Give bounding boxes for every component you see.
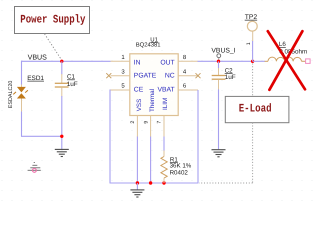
svg-text:OUT: OUT [160, 59, 174, 66]
inductor L6 [265, 57, 306, 61]
wire VBAT down [197, 90, 199, 183]
pin 7 ILIM stub [163, 116, 165, 137]
junction Thermal/rail [149, 181, 152, 184]
wire dashed link from Power Supply to VBUS node [45, 34, 63, 61]
wire TP2 down [252, 41, 254, 61]
svg-text:VBAT: VBAT [157, 87, 174, 94]
junction C2 tap [217, 60, 220, 63]
capacitor C1 [55, 61, 69, 96]
pin 2 VSS stub [136, 116, 138, 137]
pin 5 CE stub [111, 89, 130, 91]
wire CE down [109, 90, 111, 184]
wire node to L6 [253, 60, 265, 62]
wire OUT to TP2 node [198, 60, 253, 62]
svg-text:1uF: 1uF [225, 74, 236, 81]
ground (rail) [130, 183, 144, 197]
svg-text:L6: L6 [279, 41, 286, 48]
wire ESD1 to ground rail [21, 112, 23, 137]
resistor R1 [161, 151, 167, 184]
wire VBUS down to ESD1 [21, 61, 23, 85]
pin 8 OUT stub [178, 60, 198, 62]
port circle VBUS_I [217, 54, 221, 58]
junction C1/ESD1 ground node [60, 135, 63, 138]
svg-text:Thermal: Thermal [149, 89, 156, 112]
svg-text:9: 9 [143, 121, 149, 124]
svg-text:IN: IN [134, 59, 141, 66]
pin 6 VBAT stub [178, 89, 198, 91]
junction VSS/rail [136, 181, 139, 184]
junction R1/rail [162, 181, 165, 184]
no-connect X pin 3 [106, 73, 111, 78]
dashed wire E-Load bottom to rail [252, 123, 254, 183]
ESD diode ESD1 [13, 85, 28, 113]
pin 3 PGATE stub (no-connect) [111, 75, 130, 77]
DNP red X over L6 [268, 31, 305, 90]
svg-text:Power Supply: Power Supply [20, 13, 85, 26]
svg-text:BQ24381: BQ24381 [136, 41, 161, 48]
svg-text:VBUS: VBUS [28, 54, 48, 62]
capacitor C2 [212, 61, 226, 89]
pin 1 IN stub [111, 60, 130, 62]
svg-text:2: 2 [130, 121, 136, 124]
svg-text:VBUS_I: VBUS_I [211, 48, 235, 55]
svg-text:E-Load: E-Load [239, 102, 272, 115]
svg-text:TP2: TP2 [245, 14, 258, 21]
block E-Load [225, 96, 289, 122]
svg-text:PGATE: PGATE [134, 73, 157, 80]
dashed wire rail extension [199, 182, 253, 184]
svg-text:ILIM: ILIM [162, 98, 169, 110]
ground (VBUS filter) [55, 149, 69, 156]
wire C2 to ground [218, 89, 220, 149]
pin 9 Thermal stub [150, 116, 152, 137]
wire VSS down [136, 137, 138, 184]
test point TP2 [246, 21, 257, 45]
svg-text:C1: C1 [67, 74, 75, 81]
svg-text:CE: CE [134, 87, 144, 94]
wire C1 to ground [61, 96, 63, 149]
unconnected ground symbol with pink marker [28, 163, 41, 173]
port square (off-page) [306, 59, 311, 64]
ground (C2) [212, 150, 226, 157]
wire VBUS horizontal [21, 60, 111, 62]
junction TP2 tap [251, 60, 254, 63]
junction VBUS / C1 [60, 60, 63, 63]
wire bottom rail [110, 182, 199, 184]
svg-text:1: 1 [246, 42, 252, 45]
no-connect X pin 4 [196, 73, 201, 78]
svg-text:1uF: 1uF [67, 81, 78, 88]
block Power Supply [15, 7, 90, 34]
svg-text:VSS: VSS [136, 99, 143, 112]
op IC U1 BQ24381 body [130, 54, 178, 116]
svg-text:R0402: R0402 [170, 169, 189, 176]
dashed wire node to E-Load top [252, 64, 254, 97]
svg-text:NC: NC [165, 73, 175, 80]
svg-text:ESDALC20: ESDALC20 [8, 81, 14, 109]
wire ILIM to R1 [163, 137, 165, 152]
wire Thermal down [150, 137, 152, 184]
pin 4 NC stub (no-connect) [178, 75, 198, 77]
svg-text:ESD1: ESD1 [27, 75, 44, 82]
svg-text:7: 7 [157, 121, 163, 124]
